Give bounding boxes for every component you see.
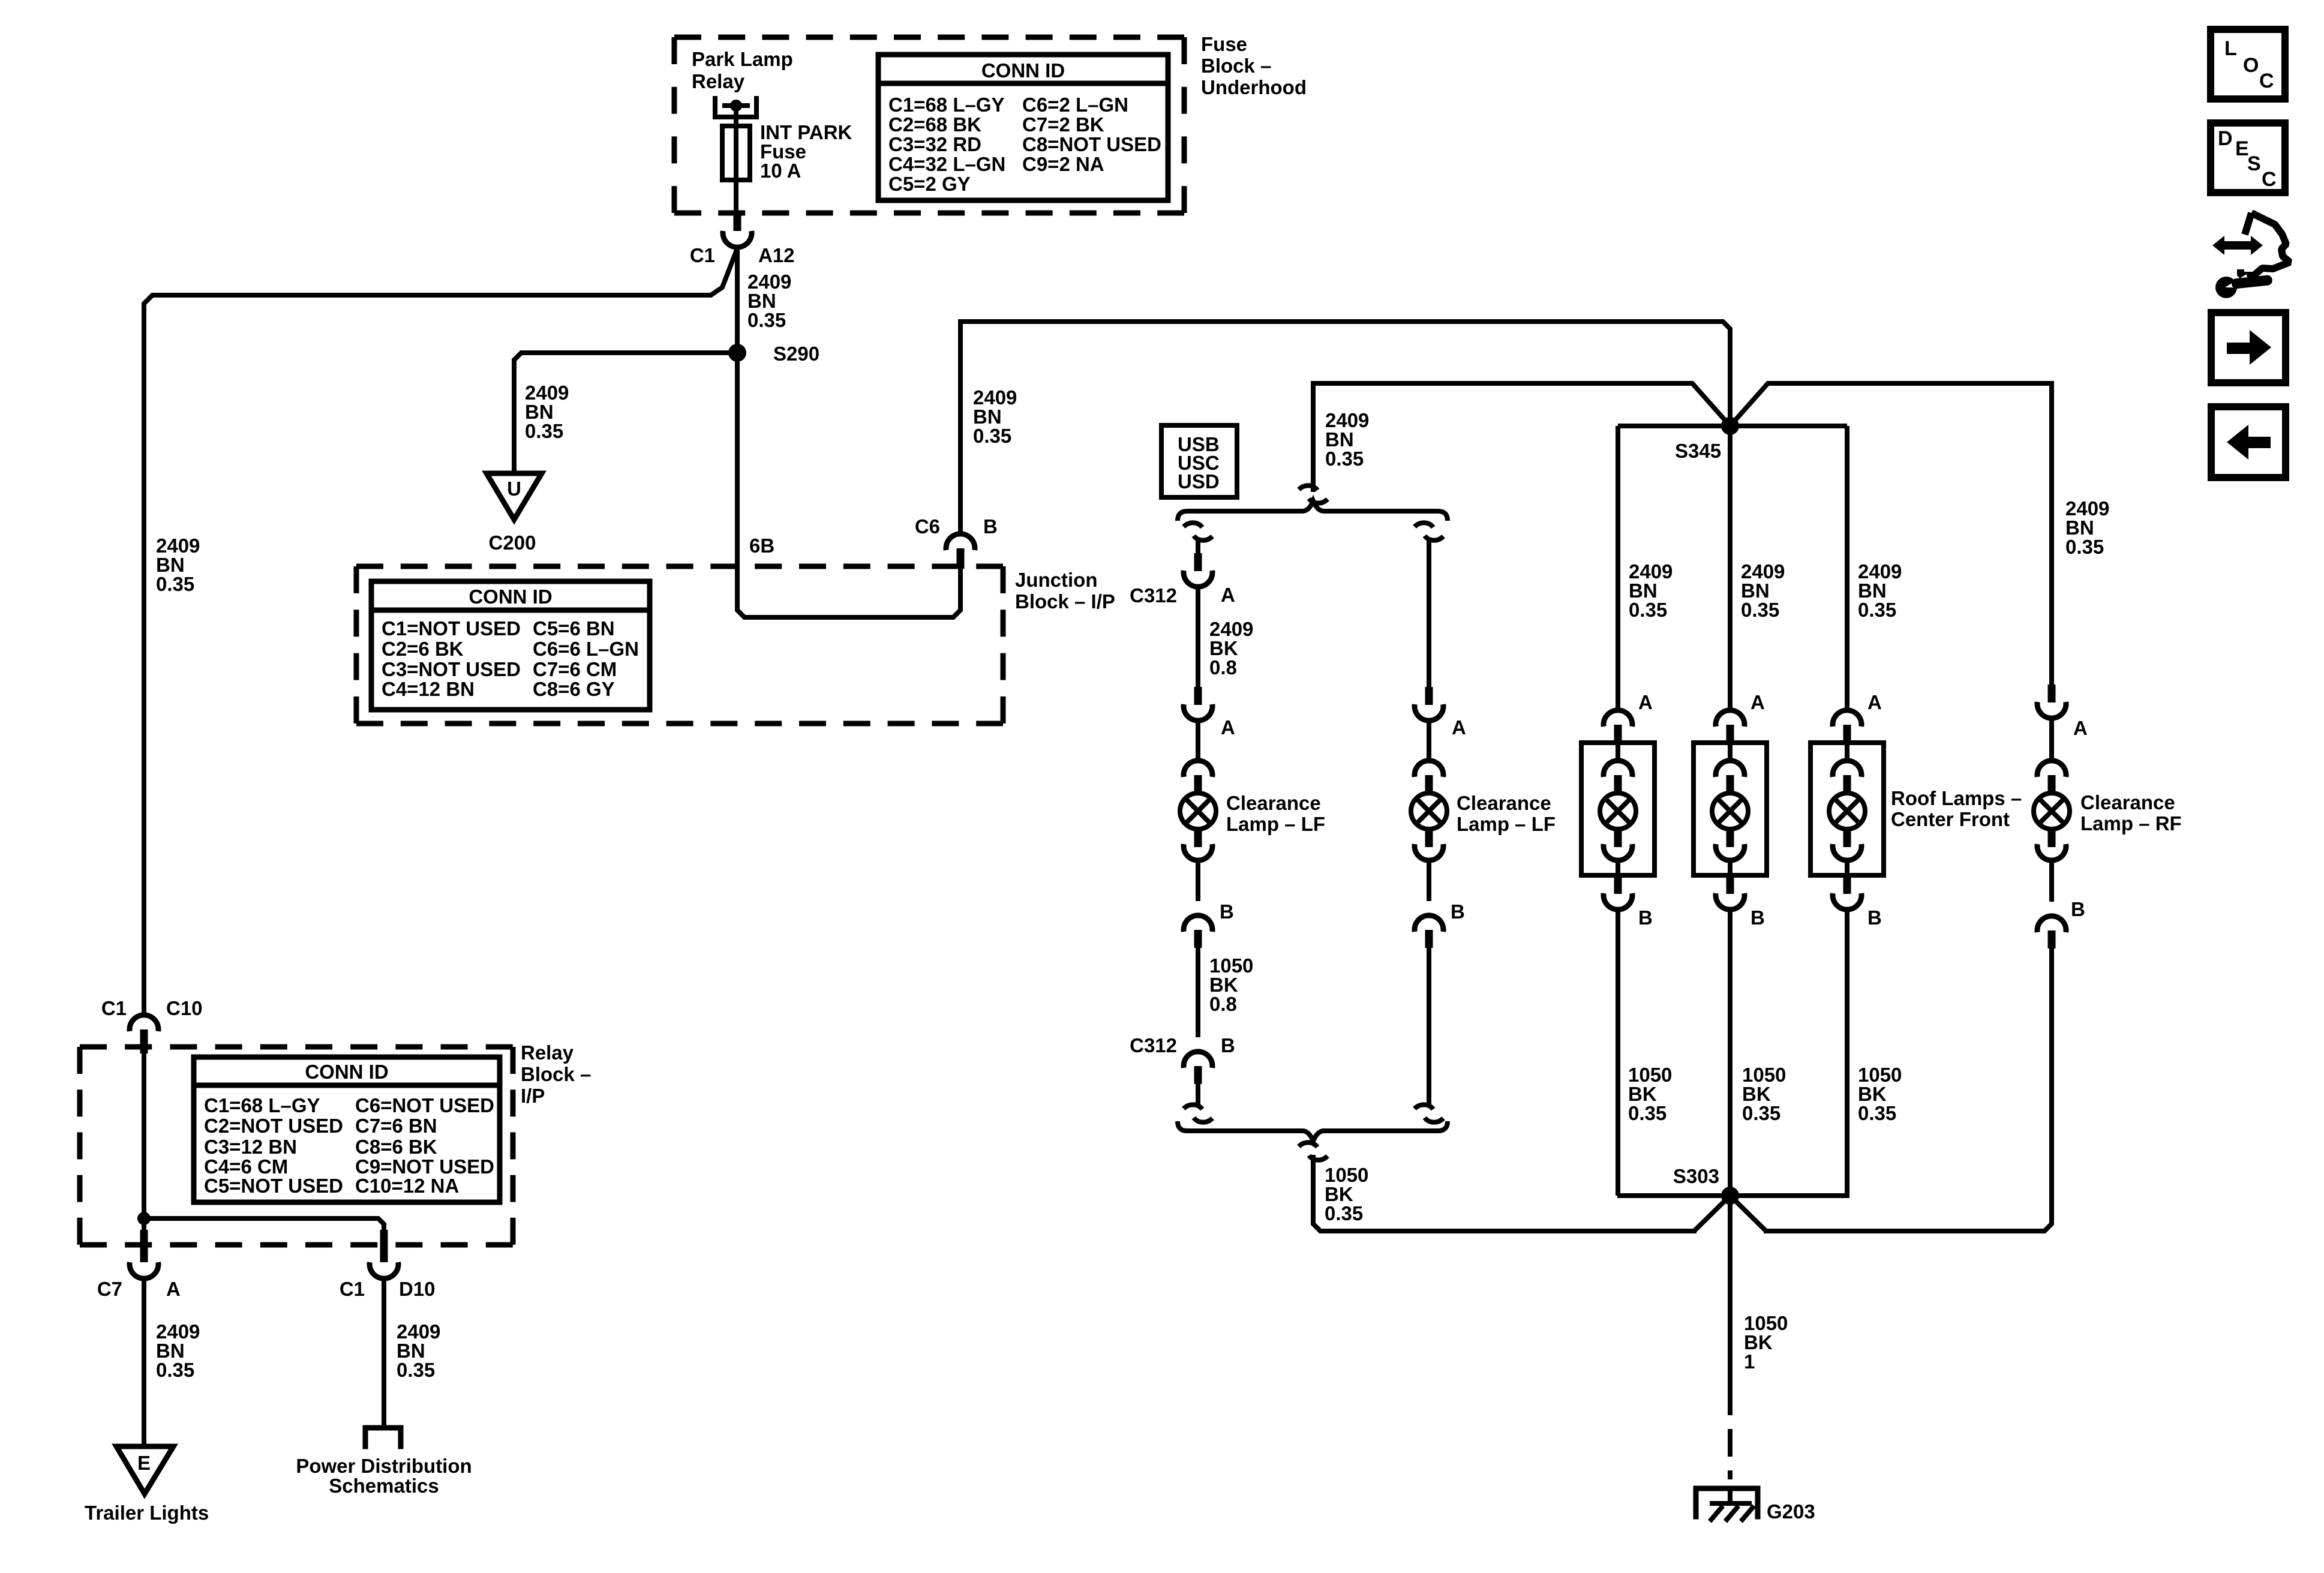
wire D10 to power distribution	[382, 1278, 386, 1427]
svg-text:G203: G203	[1767, 1500, 1815, 1523]
svg-text:C3=32 RD: C3=32 RD	[888, 133, 981, 155]
svg-text:S345: S345	[1675, 440, 1721, 462]
clearance lamp RF bulb	[2037, 761, 2066, 777]
wire to C1/D10 exit	[144, 1218, 384, 1230]
wire break (bundle bottom)	[1415, 1104, 1433, 1109]
fuse block CONN ID table	[878, 55, 1168, 200]
ground G203	[1696, 1488, 1758, 1517]
connector C6 / B (junction block)	[946, 534, 975, 550]
svg-text:Roof Lamps –: Roof Lamps –	[1891, 787, 2022, 809]
splice S345	[1721, 417, 1739, 435]
svg-text:A: A	[1638, 691, 1653, 713]
roof lamp 3 connector B	[1843, 875, 1851, 894]
roof lamp 1 bulb	[1604, 761, 1632, 777]
svg-text:Block –: Block –	[1201, 55, 1271, 77]
wire break (merge bottom)	[1299, 1142, 1317, 1147]
wire break (bundle bottom)	[1184, 1104, 1202, 1109]
S345 bus bar to roof lamps	[1618, 424, 1847, 428]
svg-text:C1=68 L–GY: C1=68 L–GY	[888, 94, 1005, 116]
svg-text:C6=2 L–GN: C6=2 L–GN	[1022, 94, 1128, 116]
svg-text:C4=32 L–GN: C4=32 L–GN	[888, 153, 1005, 175]
svg-text:Relay: Relay	[692, 70, 745, 92]
svg-text:A: A	[1867, 691, 1882, 713]
svg-text:I/P: I/P	[521, 1085, 545, 1107]
svg-text:C9=2 NA: C9=2 NA	[1022, 153, 1104, 175]
svg-text:Center Front: Center Front	[1891, 808, 2010, 830]
svg-text:Lamp – RF: Lamp – RF	[2080, 812, 2182, 834]
svg-text:Block –: Block –	[521, 1063, 591, 1085]
svg-text:0.8: 0.8	[1209, 993, 1237, 1015]
wire roof lamp 3 feed	[1845, 426, 1849, 710]
svg-text:B: B	[1451, 900, 1465, 923]
svg-text:0.35: 0.35	[525, 420, 563, 442]
svg-text:Clearance: Clearance	[2080, 791, 2175, 813]
off-page bracket (power distribution)	[365, 1428, 401, 1446]
svg-text:B: B	[1750, 906, 1765, 929]
roof lamp 3 box	[1810, 743, 1884, 875]
wire S345 left branch to clearance lamp bundle	[1313, 383, 1730, 490]
svg-text:C1=68 L–GY: C1=68 L–GY	[204, 1094, 320, 1116]
svg-text:C2=6 BK: C2=6 BK	[382, 638, 464, 660]
clearance lamp LF bulb	[1184, 761, 1212, 777]
connector A (clearance lamp RF)	[2048, 685, 2056, 703]
svg-text:B: B	[983, 515, 998, 538]
svg-text:C7=6 BN: C7=6 BN	[355, 1115, 437, 1137]
wire A12 branch to relay block C10	[144, 248, 737, 1015]
svg-text:Relay: Relay	[521, 1041, 574, 1064]
wire	[1427, 948, 1431, 1105]
svg-text:1: 1	[1744, 1350, 1755, 1373]
svg-text:Lamp – LF: Lamp – LF	[1226, 813, 1325, 835]
svg-text:Fuse: Fuse	[1201, 33, 1247, 55]
svg-text:C6=6 L–GN: C6=6 L–GN	[533, 638, 639, 660]
roof lamp 1 connector B	[1614, 875, 1622, 894]
wire roof lamp 1 feed	[1616, 426, 1620, 710]
svg-text:Junction: Junction	[1015, 569, 1098, 591]
svg-text:A: A	[166, 1278, 181, 1300]
svg-text:0.35: 0.35	[156, 1359, 194, 1381]
svg-text:0.35: 0.35	[1741, 599, 1779, 621]
icon LOC box	[2211, 29, 2285, 99]
svg-text:C200: C200	[489, 532, 536, 554]
connector A (clearance lamp)	[1194, 687, 1202, 705]
block USB USC USD	[1161, 425, 1237, 497]
svg-text:C2=68 BK: C2=68 BK	[888, 113, 981, 136]
svg-text:C5=6 BN: C5=6 BN	[533, 617, 615, 640]
fuse INT PARK 10A	[734, 106, 738, 214]
svg-text:C5=NOT USED: C5=NOT USED	[204, 1175, 343, 1197]
svg-text:C1: C1	[101, 997, 127, 1019]
connector B (clearance lamp RF)	[2037, 916, 2066, 932]
connector C312 / A	[1194, 553, 1202, 571]
fuse block underhood dashed box	[674, 35, 1184, 40]
wire diagonal joins into S303	[1694, 1196, 1730, 1231]
wire	[1196, 861, 1200, 901]
icon diagnostic (arrow + wrench)	[2212, 236, 2263, 255]
svg-text:C8=6 GY: C8=6 GY	[533, 678, 615, 700]
svg-text:D: D	[2218, 127, 2233, 150]
svg-text:S: S	[2247, 152, 2261, 175]
wire clearance lamp LF column 2	[1415, 523, 1433, 527]
svg-text:S290: S290	[773, 343, 819, 365]
svg-text:0.35: 0.35	[2065, 536, 2104, 558]
wire roof lamp 3 to S303	[1845, 909, 1849, 1196]
roof lamp 3 bulb	[1833, 761, 1861, 777]
connector C1 / A12 (fuse block output)	[734, 213, 741, 231]
svg-text:C: C	[2259, 70, 2274, 92]
roof lamp 2 connector B	[1727, 875, 1734, 894]
connector C1 / D10 (relay block output)	[380, 1230, 388, 1262]
dashed wire to ground	[1728, 1429, 1733, 1457]
wire roof lamp 2 feed	[1728, 426, 1733, 710]
wire break (bundle top)	[1299, 485, 1317, 490]
svg-text:0.35: 0.35	[1325, 1202, 1363, 1224]
svg-text:A: A	[2073, 717, 2088, 739]
svg-text:0.35: 0.35	[1742, 1102, 1780, 1124]
svg-text:CONN ID: CONN ID	[981, 59, 1065, 82]
wire roof lamp 2 to S303	[1728, 909, 1733, 1196]
off-page triangle U (C200)	[487, 473, 542, 520]
svg-text:O: O	[2243, 54, 2259, 77]
connector B (clearance lamp)	[1415, 915, 1443, 932]
svg-text:USD: USD	[1178, 470, 1220, 493]
icon forward arrow box	[2211, 313, 2286, 383]
svg-text:Clearance: Clearance	[1226, 792, 1321, 814]
wire 6B inside junction block to C6	[737, 566, 960, 617]
svg-text:C10: C10	[166, 997, 203, 1019]
svg-text:C1: C1	[690, 244, 715, 266]
svg-text:B: B	[1638, 906, 1653, 929]
svg-text:E: E	[137, 1452, 151, 1474]
wire C7 to trailer lights	[142, 1278, 146, 1446]
svg-text:0.35: 0.35	[973, 425, 1011, 447]
svg-text:A: A	[1221, 716, 1235, 739]
junction block I/P dashed box	[356, 564, 1003, 569]
wire S290 to C200	[514, 353, 737, 473]
svg-text:D10: D10	[399, 1278, 436, 1300]
relay block I/P dashed box	[80, 1044, 513, 1050]
svg-text:0.35: 0.35	[1629, 599, 1667, 621]
svg-text:A: A	[1750, 691, 1765, 713]
svg-text:Clearance: Clearance	[1457, 792, 1551, 814]
roof lamp 1 box	[1581, 743, 1655, 875]
wire roof lamp 1 to S303	[1616, 909, 1620, 1196]
brace bundle merge	[1178, 1121, 1448, 1141]
svg-text:C7: C7	[97, 1278, 122, 1300]
roof lamp 2 bulb	[1716, 761, 1744, 777]
svg-text:C3=12 BN: C3=12 BN	[204, 1136, 297, 1158]
svg-text:Lamp – LF: Lamp – LF	[1457, 813, 1556, 835]
svg-text:0.8: 0.8	[1209, 656, 1237, 679]
wire inside relay block	[142, 1053, 146, 1230]
clearance lamp LF bulb	[1415, 761, 1443, 777]
svg-text:C6: C6	[915, 515, 940, 538]
svg-text:C2=NOT USED: C2=NOT USED	[204, 1115, 343, 1137]
svg-text:U: U	[507, 478, 521, 500]
svg-text:Schematics: Schematics	[329, 1475, 439, 1497]
svg-text:Underhood: Underhood	[1201, 76, 1307, 98]
wire	[1196, 948, 1200, 1037]
S303 bus bar	[1617, 1193, 1849, 1198]
svg-text:C: C	[2262, 168, 2277, 191]
svg-text:A: A	[1221, 584, 1235, 606]
svg-text:B: B	[1220, 900, 1234, 923]
icon back arrow box	[2211, 407, 2286, 478]
svg-text:C312: C312	[1130, 1034, 1177, 1056]
wire C1 to S290	[735, 247, 740, 566]
svg-text:C6=NOT USED: C6=NOT USED	[355, 1094, 494, 1116]
wire S303 to G203	[1728, 1196, 1733, 1415]
wire	[2049, 718, 2054, 761]
wire bundle to S303	[1313, 1157, 1694, 1231]
wire	[1196, 1084, 1200, 1105]
off-page triangle E (trailer lights)	[116, 1446, 173, 1494]
svg-text:B: B	[2071, 898, 2085, 920]
svg-text:A12: A12	[758, 244, 795, 266]
wire	[1427, 861, 1431, 901]
splice S303	[1721, 1187, 1739, 1205]
svg-text:Trailer Lights: Trailer Lights	[85, 1502, 209, 1524]
brace bundle split	[1178, 501, 1448, 521]
wire C6 up and right to S345	[958, 322, 963, 534]
svg-text:C4=12 BN: C4=12 BN	[382, 678, 475, 700]
wire clearance lamp LF column 1	[1184, 523, 1202, 527]
svg-text:0.35: 0.35	[1858, 1102, 1896, 1124]
wire clearance RF to S303	[1766, 948, 2052, 1231]
wire	[1427, 721, 1431, 761]
svg-text:Power Distribution: Power Distribution	[296, 1455, 472, 1477]
wire	[1196, 721, 1200, 761]
svg-text:C8=6 BK: C8=6 BK	[355, 1136, 437, 1158]
svg-text:C1=NOT USED: C1=NOT USED	[382, 617, 521, 640]
svg-text:B: B	[1221, 1034, 1235, 1056]
svg-text:C5=2 GY: C5=2 GY	[888, 173, 971, 195]
svg-text:0.35: 0.35	[1628, 1102, 1667, 1124]
svg-text:S303: S303	[1673, 1165, 1719, 1187]
wire S345 right branch to clearance lamp RF	[1730, 383, 2052, 685]
svg-text:L: L	[2224, 37, 2237, 60]
svg-text:C3=NOT USED: C3=NOT USED	[382, 658, 521, 680]
svg-text:C10=12 NA: C10=12 NA	[355, 1175, 459, 1197]
park lamp relay contact	[715, 98, 756, 117]
svg-text:C1: C1	[340, 1278, 365, 1300]
svg-text:B: B	[1867, 906, 1882, 929]
junction inside relay block	[137, 1212, 151, 1225]
svg-text:A: A	[1452, 716, 1466, 739]
roof lamp 2 box	[1694, 743, 1767, 875]
relay block CONN ID table	[194, 1057, 500, 1202]
svg-text:0.35: 0.35	[397, 1359, 435, 1381]
svg-text:0.35: 0.35	[1325, 448, 1364, 470]
wire	[2049, 861, 2054, 902]
svg-text:0.35: 0.35	[156, 573, 194, 595]
svg-text:Park Lamp: Park Lamp	[692, 48, 793, 70]
splice S290	[728, 344, 746, 362]
connector C312 / B	[1184, 1052, 1212, 1068]
svg-text:Block – I/P: Block – I/P	[1015, 590, 1115, 613]
svg-text:C8=NOT USED: C8=NOT USED	[1022, 133, 1161, 155]
svg-text:C312: C312	[1130, 584, 1177, 607]
svg-text:10 A: 10 A	[760, 160, 801, 182]
connector B (clearance lamp)	[1184, 915, 1212, 932]
connector A (clearance lamp)	[1425, 687, 1433, 705]
icon DESC box	[2211, 123, 2285, 193]
svg-text:6B: 6B	[749, 535, 774, 557]
svg-text:0.35: 0.35	[747, 309, 786, 331]
svg-text:C7=6 CM: C7=6 CM	[533, 658, 617, 680]
connector C7 / A (relay block output)	[140, 1230, 148, 1262]
junction block CONN ID table	[371, 581, 650, 710]
svg-text:CONN ID: CONN ID	[469, 586, 552, 608]
svg-text:0.35: 0.35	[1858, 599, 1896, 621]
svg-text:C7=2 BK: C7=2 BK	[1022, 113, 1104, 136]
svg-text:CONN ID: CONN ID	[305, 1061, 388, 1083]
